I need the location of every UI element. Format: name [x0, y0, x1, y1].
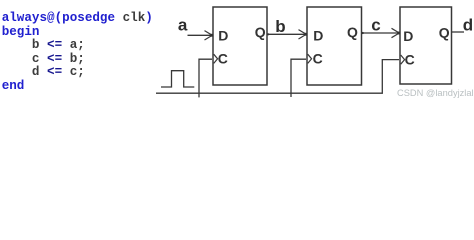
watermark	[397, 88, 474, 98]
arrowhead into U3.D	[392, 28, 400, 37]
clock riser to U2.C	[291, 59, 306, 97]
svg-text:D: D	[218, 27, 228, 43]
arrowhead into U2.D	[299, 30, 307, 39]
arrowhead into U1.D	[205, 31, 213, 40]
svg-text:c: c	[371, 16, 380, 35]
flip-flop U1 box	[213, 7, 267, 85]
svg-text:Q: Q	[347, 24, 358, 40]
svg-text:C: C	[313, 51, 323, 67]
svg-text:C: C	[405, 52, 415, 68]
U2 clock caret	[308, 54, 312, 63]
svg-text:D: D	[313, 27, 323, 43]
wire a input	[188, 34, 212, 36]
wire c start dot at U2.Q	[362, 32, 364, 34]
svg-text:C: C	[218, 51, 228, 67]
flip-flop U3 box	[400, 7, 452, 84]
svg-text:b: b	[275, 17, 285, 36]
arrow tip dot U3.D	[397, 32, 400, 35]
arrow tip dot U1.D	[210, 34, 213, 37]
U1 clock caret	[214, 54, 218, 63]
wire b start dot at U1.Q	[267, 33, 269, 35]
wire c U2.Q to U3.D	[362, 32, 399, 34]
arrow tip dot U2.D	[304, 33, 307, 36]
wire d output	[452, 31, 465, 33]
wire b U1.Q to U2.D	[267, 33, 305, 35]
svg-text:Q: Q	[255, 24, 266, 40]
clock pulse symbol	[161, 71, 194, 87]
svg-text:d: d	[463, 16, 473, 35]
svg-text:D: D	[403, 28, 413, 44]
verilog code block	[2, 12, 153, 93]
U3 clock caret	[401, 55, 405, 64]
clock distribution wire	[156, 60, 399, 94]
clock riser to U1.C	[199, 59, 212, 97]
svg-text:a: a	[178, 15, 188, 34]
flip-flop U2 box	[307, 7, 362, 85]
svg-text:Q: Q	[439, 25, 450, 41]
